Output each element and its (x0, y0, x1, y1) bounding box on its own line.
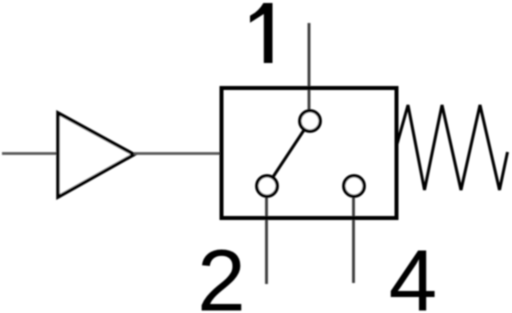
amplifier triangle (pilot actuator) (58, 113, 134, 197)
label 1 (250, 3, 273, 63)
terminal circle port 4 (344, 176, 364, 196)
wire port 2 stub bottom left (265, 186, 268, 284)
terminal circle port 1 (300, 111, 320, 131)
spring return (397, 105, 508, 190)
wire input left (2, 152, 58, 155)
wire port 1 stub top (308, 23, 311, 121)
svg-text:2: 2 (197, 233, 245, 313)
svg-text:4: 4 (389, 233, 437, 313)
valve body box (222, 88, 397, 218)
wire port 4 stub bottom right (352, 186, 355, 283)
terminal circle port 2 (257, 176, 277, 196)
wire triangle to box (134, 152, 222, 155)
switch contact arm (diagonal) (267, 121, 310, 186)
